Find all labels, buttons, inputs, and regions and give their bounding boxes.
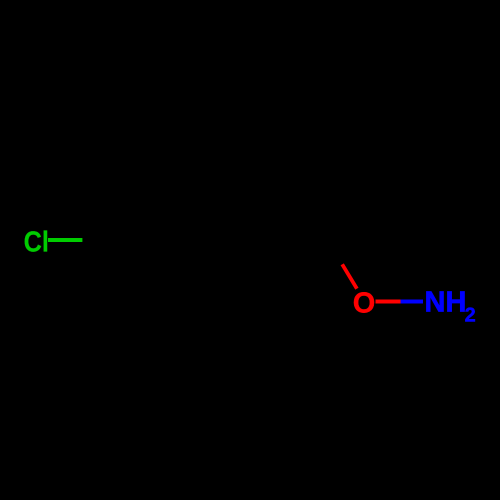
svg-text:NH: NH	[425, 287, 467, 319]
svg-text:2: 2	[465, 305, 476, 327]
svg-text:Cl: Cl	[24, 225, 49, 258]
svg-text:O: O	[353, 288, 376, 320]
